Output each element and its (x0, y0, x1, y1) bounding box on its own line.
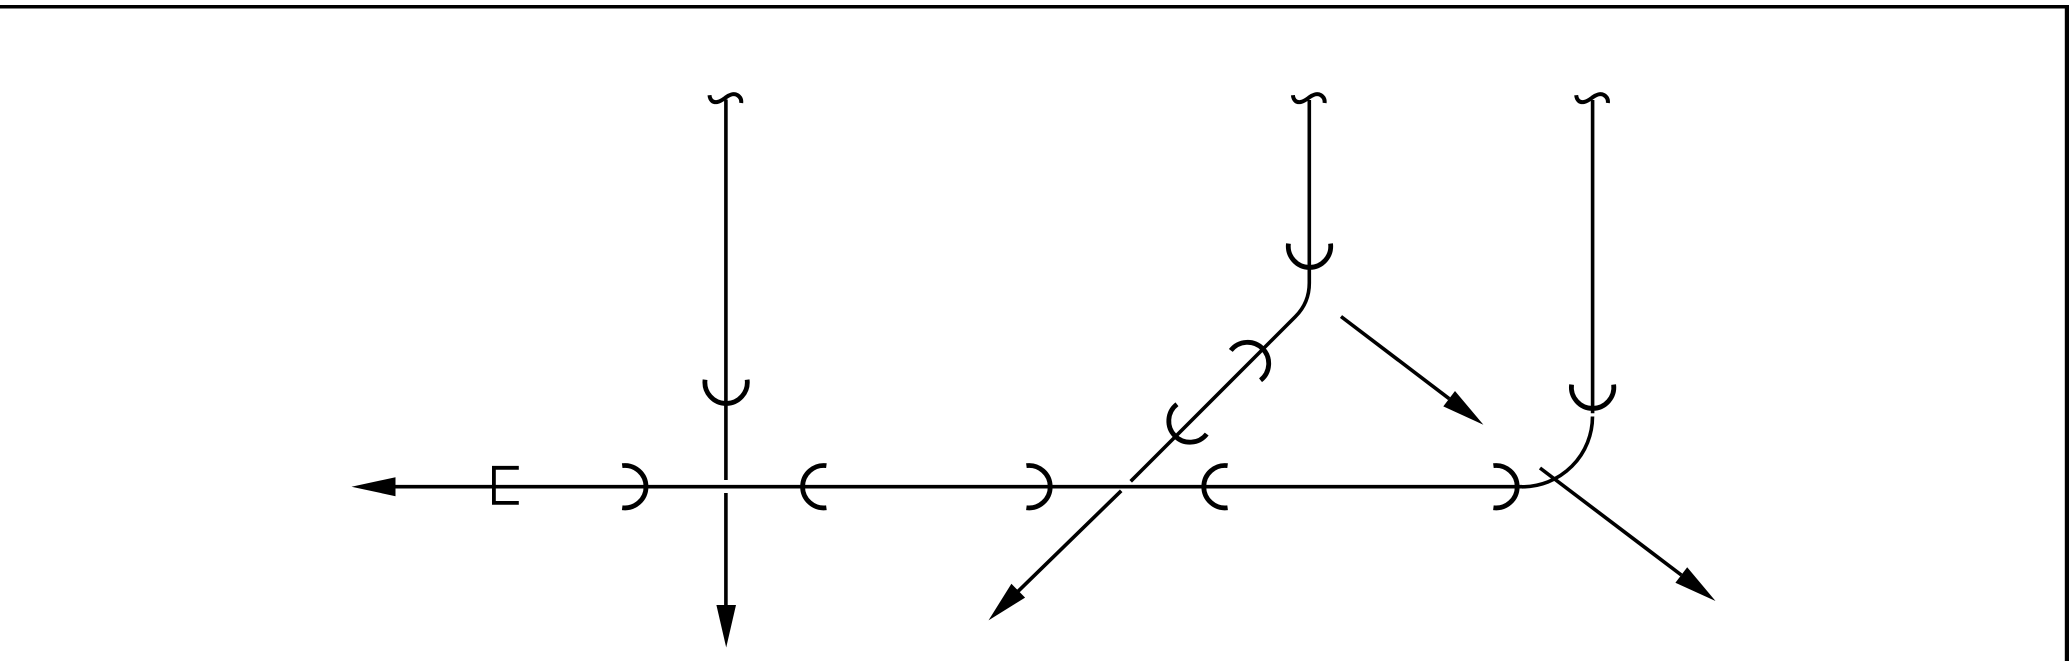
border top (0, 5, 2065, 9)
wire diagonal lower segment to arrow (1018, 491, 1121, 591)
break symbol tilde on V3 (1576, 94, 1608, 103)
wire long diagonal arrow segment B (1540, 468, 1681, 575)
hop right-bulge on bus at 1029 (1026, 466, 1050, 508)
arrowhead mid of long arrow (1443, 391, 1483, 425)
connector bracket E on bus (494, 468, 519, 503)
break symbol tilde on V2 (1293, 94, 1325, 103)
arrowhead bottom of V1 (716, 605, 736, 648)
hop cup on V2 (1288, 244, 1330, 268)
wire vertical V2 with bend into diagonal (1131, 100, 1310, 481)
border right (2065, 5, 2069, 661)
hop down-left bulge on diagonal (1160, 404, 1207, 451)
hop up-right bulge on diagonal (1231, 334, 1278, 381)
hop cup on V3 (1571, 385, 1613, 409)
wire long diagonal arrow segment A (1341, 317, 1449, 399)
wire vertical V1 upper segment (724, 100, 728, 481)
wire V3 bend arc into bus (1522, 417, 1593, 487)
wire main horizontal bus (393, 485, 1522, 489)
hop cup on V1 (705, 380, 747, 404)
hop right-bulge on bus at 1496 (1493, 466, 1517, 508)
wire vertical V1 lower segment (724, 493, 728, 606)
hop left-bulge on bus at 1225 (1204, 466, 1228, 508)
arrowhead left end of bus (352, 477, 396, 496)
arrowhead end of long arrow (1675, 567, 1715, 601)
hop right-bulge on bus at 625 (622, 466, 646, 508)
arrowhead diagonal lower-left (989, 584, 1026, 621)
break symbol tilde on V1 (710, 94, 742, 103)
hop left-bulge on bus at 824 (803, 466, 827, 508)
wire vertical V3 (1591, 100, 1595, 413)
